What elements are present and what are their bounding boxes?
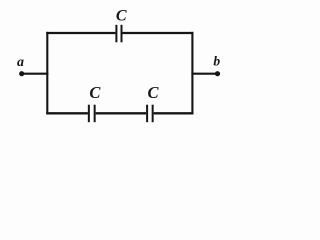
svg-text:C: C <box>89 83 101 102</box>
label a <box>17 55 24 70</box>
wire: top rail left segment <box>46 32 115 34</box>
wire: terminal a to left rail <box>22 73 49 75</box>
svg-text:a: a <box>17 55 24 70</box>
wire: bottom rail middle segment <box>96 112 146 114</box>
capacitor C (bottom left) <box>89 105 95 123</box>
wire: bottom rail left segment <box>46 112 88 114</box>
wire: right rail to terminal b <box>191 73 217 75</box>
label C (bottom right capacitor value) <box>147 83 159 102</box>
wire: bottom rail right segment <box>154 112 194 114</box>
svg-text:C: C <box>116 8 127 25</box>
node b terminal dot <box>215 71 220 76</box>
wire: left vertical rail <box>46 32 48 115</box>
svg-text:b: b <box>213 53 220 68</box>
label C (bottom left capacitor value) <box>89 83 101 102</box>
capacitor C (top) <box>116 25 121 43</box>
svg-text:C: C <box>147 83 159 102</box>
label b <box>213 53 220 68</box>
node a terminal dot <box>19 71 24 76</box>
wire: right vertical rail <box>191 32 193 115</box>
label C (top capacitor value) <box>116 8 127 25</box>
capacitor C (bottom right) <box>147 105 153 123</box>
wire: top rail right segment <box>123 32 194 34</box>
